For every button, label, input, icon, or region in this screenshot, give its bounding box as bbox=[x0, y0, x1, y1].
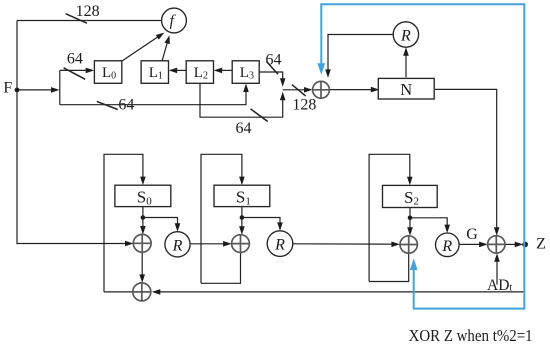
wire R top output down into XOR1 bbox=[328, 35, 393, 75]
wire arrowhead into R1 top bbox=[175, 223, 181, 232]
xor XOR S1 bbox=[232, 235, 250, 253]
svg-text:G: G bbox=[466, 226, 478, 243]
wire arrowhead R1 into XOR S1 bbox=[223, 241, 232, 247]
bus slash 64 (lower branch) bbox=[97, 101, 118, 109]
bus slash 128 (top bus) bbox=[66, 14, 87, 24]
wire S2 output down to XOR bbox=[409, 208, 411, 233]
wire ADt into output XOR bbox=[496, 257, 498, 285]
svg-text:64: 64 bbox=[236, 120, 252, 137]
wire arrowhead into S2 top bbox=[407, 177, 413, 186]
wire S1 feedback loop bbox=[201, 154, 242, 283]
wire F input rail (top bus down to bottom XOR row) bbox=[17, 21, 128, 244]
wire arrowhead into L2 right bbox=[214, 68, 223, 74]
wire XOR1 to N bbox=[329, 89, 376, 91]
svg-text:F: F bbox=[3, 79, 12, 96]
wire S2 junction to R3 bbox=[410, 218, 447, 230]
svg-text:N: N bbox=[400, 80, 412, 99]
node F junction dot bbox=[15, 88, 20, 93]
wire arrowhead into XOR S2 top bbox=[407, 227, 413, 236]
wire R1 to XOR S1 bbox=[190, 243, 228, 245]
wire bottom XOR output to S0 loop bbox=[104, 291, 133, 293]
wire top 128-bit bus to f bbox=[17, 20, 162, 22]
wire arrowhead into XOR S0 left bbox=[125, 241, 134, 247]
bus slash 64 (L3 output) bbox=[267, 62, 279, 75]
wire L3 to L2 arrow bbox=[217, 69, 232, 71]
wire arrowhead R2 into XOR S2 bbox=[391, 242, 400, 248]
node S2 output junction dot bbox=[408, 216, 413, 221]
node S0 output junction dot bbox=[141, 215, 146, 220]
register R3 bbox=[436, 233, 460, 257]
wire L1 to f bbox=[162, 42, 168, 62]
register L3 bbox=[232, 61, 259, 84]
xor output XOR (Z) bbox=[488, 236, 505, 253]
svg-text:R: R bbox=[441, 238, 452, 255]
wire arrowhead L3 branch down bbox=[280, 78, 286, 87]
wire arrowhead N output into output XOR bbox=[494, 227, 500, 236]
wire arrowhead into L1 right bbox=[169, 68, 178, 74]
wire R3 to output XOR (G) bbox=[459, 243, 485, 245]
wire blue conditional feedback (Z down to XOR S2) bbox=[414, 244, 525, 308]
wire L2 to L1 arrow bbox=[172, 69, 186, 71]
svg-text:R: R bbox=[172, 237, 183, 254]
node S1 output junction dot bbox=[240, 215, 245, 220]
labels bbox=[67, 3, 317, 137]
wire N output down to output XOR bbox=[435, 89, 497, 232]
wire arrowhead output XOR to Z junction bbox=[515, 242, 524, 248]
wire arrowhead R3 into output XOR bbox=[479, 242, 488, 248]
svg-text:XOR Z when t%2=1: XOR Z when t%2=1 bbox=[409, 326, 533, 345]
wire S0 junction to R1 bbox=[143, 218, 178, 229]
register L0 bbox=[94, 61, 121, 84]
wire arrowhead F branch bbox=[51, 87, 60, 93]
wire XOR S1 output to S1 loop bbox=[201, 253, 241, 284]
wire arrowhead L1 to f bbox=[164, 35, 169, 44]
register L2 bbox=[186, 61, 213, 84]
block N bbox=[378, 78, 434, 99]
svg-text:ADt: ADt bbox=[487, 277, 512, 294]
wire S0 feedback loop bbox=[104, 154, 143, 292]
wire N to R arrow bbox=[405, 51, 407, 78]
wire XOR S2 output to S2 loop bbox=[369, 253, 409, 281]
xor XOR S0 bbox=[133, 234, 151, 252]
wire blue arrowhead into XOR1 bbox=[317, 63, 325, 75]
wire arrowhead into N bbox=[371, 87, 380, 93]
wire arrowhead L0 to f bbox=[156, 33, 165, 40]
block S0 bbox=[115, 185, 171, 206]
block S2 bbox=[383, 185, 438, 207]
arrowheads bbox=[51, 33, 523, 295]
wire arrowhead L2 branch up bbox=[280, 92, 286, 101]
bus slash 128 (into XOR1) bbox=[292, 85, 306, 97]
wire arrowhead into S0 top bbox=[140, 177, 146, 186]
svg-text:128: 128 bbox=[292, 96, 316, 113]
wire blue conditional feedback (Z up to XOR1) bbox=[321, 4, 524, 308]
node Z junction dot bbox=[522, 242, 528, 248]
svg-text:R: R bbox=[400, 28, 411, 45]
wire arrowhead into S1 top bbox=[239, 177, 245, 186]
svg-text:64: 64 bbox=[118, 96, 134, 113]
svg-text:Z: Z bbox=[536, 236, 546, 253]
wire S1 junction to R2 bbox=[242, 218, 280, 228]
xor XOR S2 bbox=[400, 236, 417, 253]
bus slash 64 (L0 input) bbox=[64, 68, 86, 80]
wire L2 bottom feedback up to XOR node bbox=[200, 83, 283, 117]
block S1 bbox=[214, 185, 270, 206]
wire XOR S0 down to bottom XOR bbox=[141, 252, 143, 279]
wire arrowhead into R2 top bbox=[277, 222, 283, 231]
wire S0 output down to XOR bbox=[142, 207, 144, 232]
wire arrowhead R top into XOR1 bbox=[325, 69, 331, 78]
wire arrowhead ADt into output XOR bbox=[494, 253, 500, 261]
wire Z feedback line into bottom XOR bbox=[155, 291, 523, 293]
xor XOR1 (top) bbox=[313, 81, 330, 98]
wire L0 to f bbox=[122, 37, 158, 61]
xor gates (circled plus) bbox=[133, 81, 505, 301]
wire R2 to XOR S2 bbox=[293, 243, 397, 245]
wire blue arrowhead into XOR S2 bbox=[410, 258, 418, 270]
wire S1 output down to XOR bbox=[241, 207, 243, 232]
register R1 bbox=[165, 232, 190, 257]
wire L3 output down bbox=[259, 72, 283, 83]
wire arrowhead into L0 bbox=[86, 68, 95, 74]
wire arrowhead into bottom XOR top bbox=[139, 274, 145, 283]
xor bottom XOR bbox=[133, 283, 151, 301]
wire S2 feedback loop bbox=[369, 154, 410, 281]
wire branch T vertical bbox=[59, 70, 61, 104]
wire arrowhead Z feedback into bottom XOR bbox=[152, 289, 161, 295]
wire lower 64-bit branch to L3 bottom bbox=[60, 87, 246, 105]
wire arrowhead into L3 bottom bbox=[243, 84, 249, 93]
wire branch to L0 input bbox=[60, 69, 91, 71]
wire F to branch T bbox=[17, 89, 57, 91]
register R top bbox=[393, 22, 418, 47]
op f circle bbox=[162, 8, 187, 33]
svg-text:R: R bbox=[274, 237, 285, 254]
wire arrowhead N to R bbox=[403, 47, 409, 56]
wire arrowhead into R3 top bbox=[444, 225, 450, 234]
register L1 bbox=[141, 61, 168, 84]
svg-text:64: 64 bbox=[67, 51, 83, 68]
svg-text:64: 64 bbox=[266, 51, 282, 68]
svg-text:128: 128 bbox=[76, 3, 100, 20]
wire 128-bit into XOR1 bbox=[283, 89, 310, 91]
wire output XOR to Z bbox=[505, 243, 520, 245]
bus slash 64 (L2 bottom feedback) bbox=[250, 109, 267, 122]
wire arrowhead into XOR S0 top bbox=[140, 226, 146, 235]
register R2 bbox=[267, 231, 293, 257]
wire arrowhead into XOR S1 top bbox=[239, 226, 245, 235]
wire arrowhead into XOR1 bbox=[304, 87, 313, 93]
